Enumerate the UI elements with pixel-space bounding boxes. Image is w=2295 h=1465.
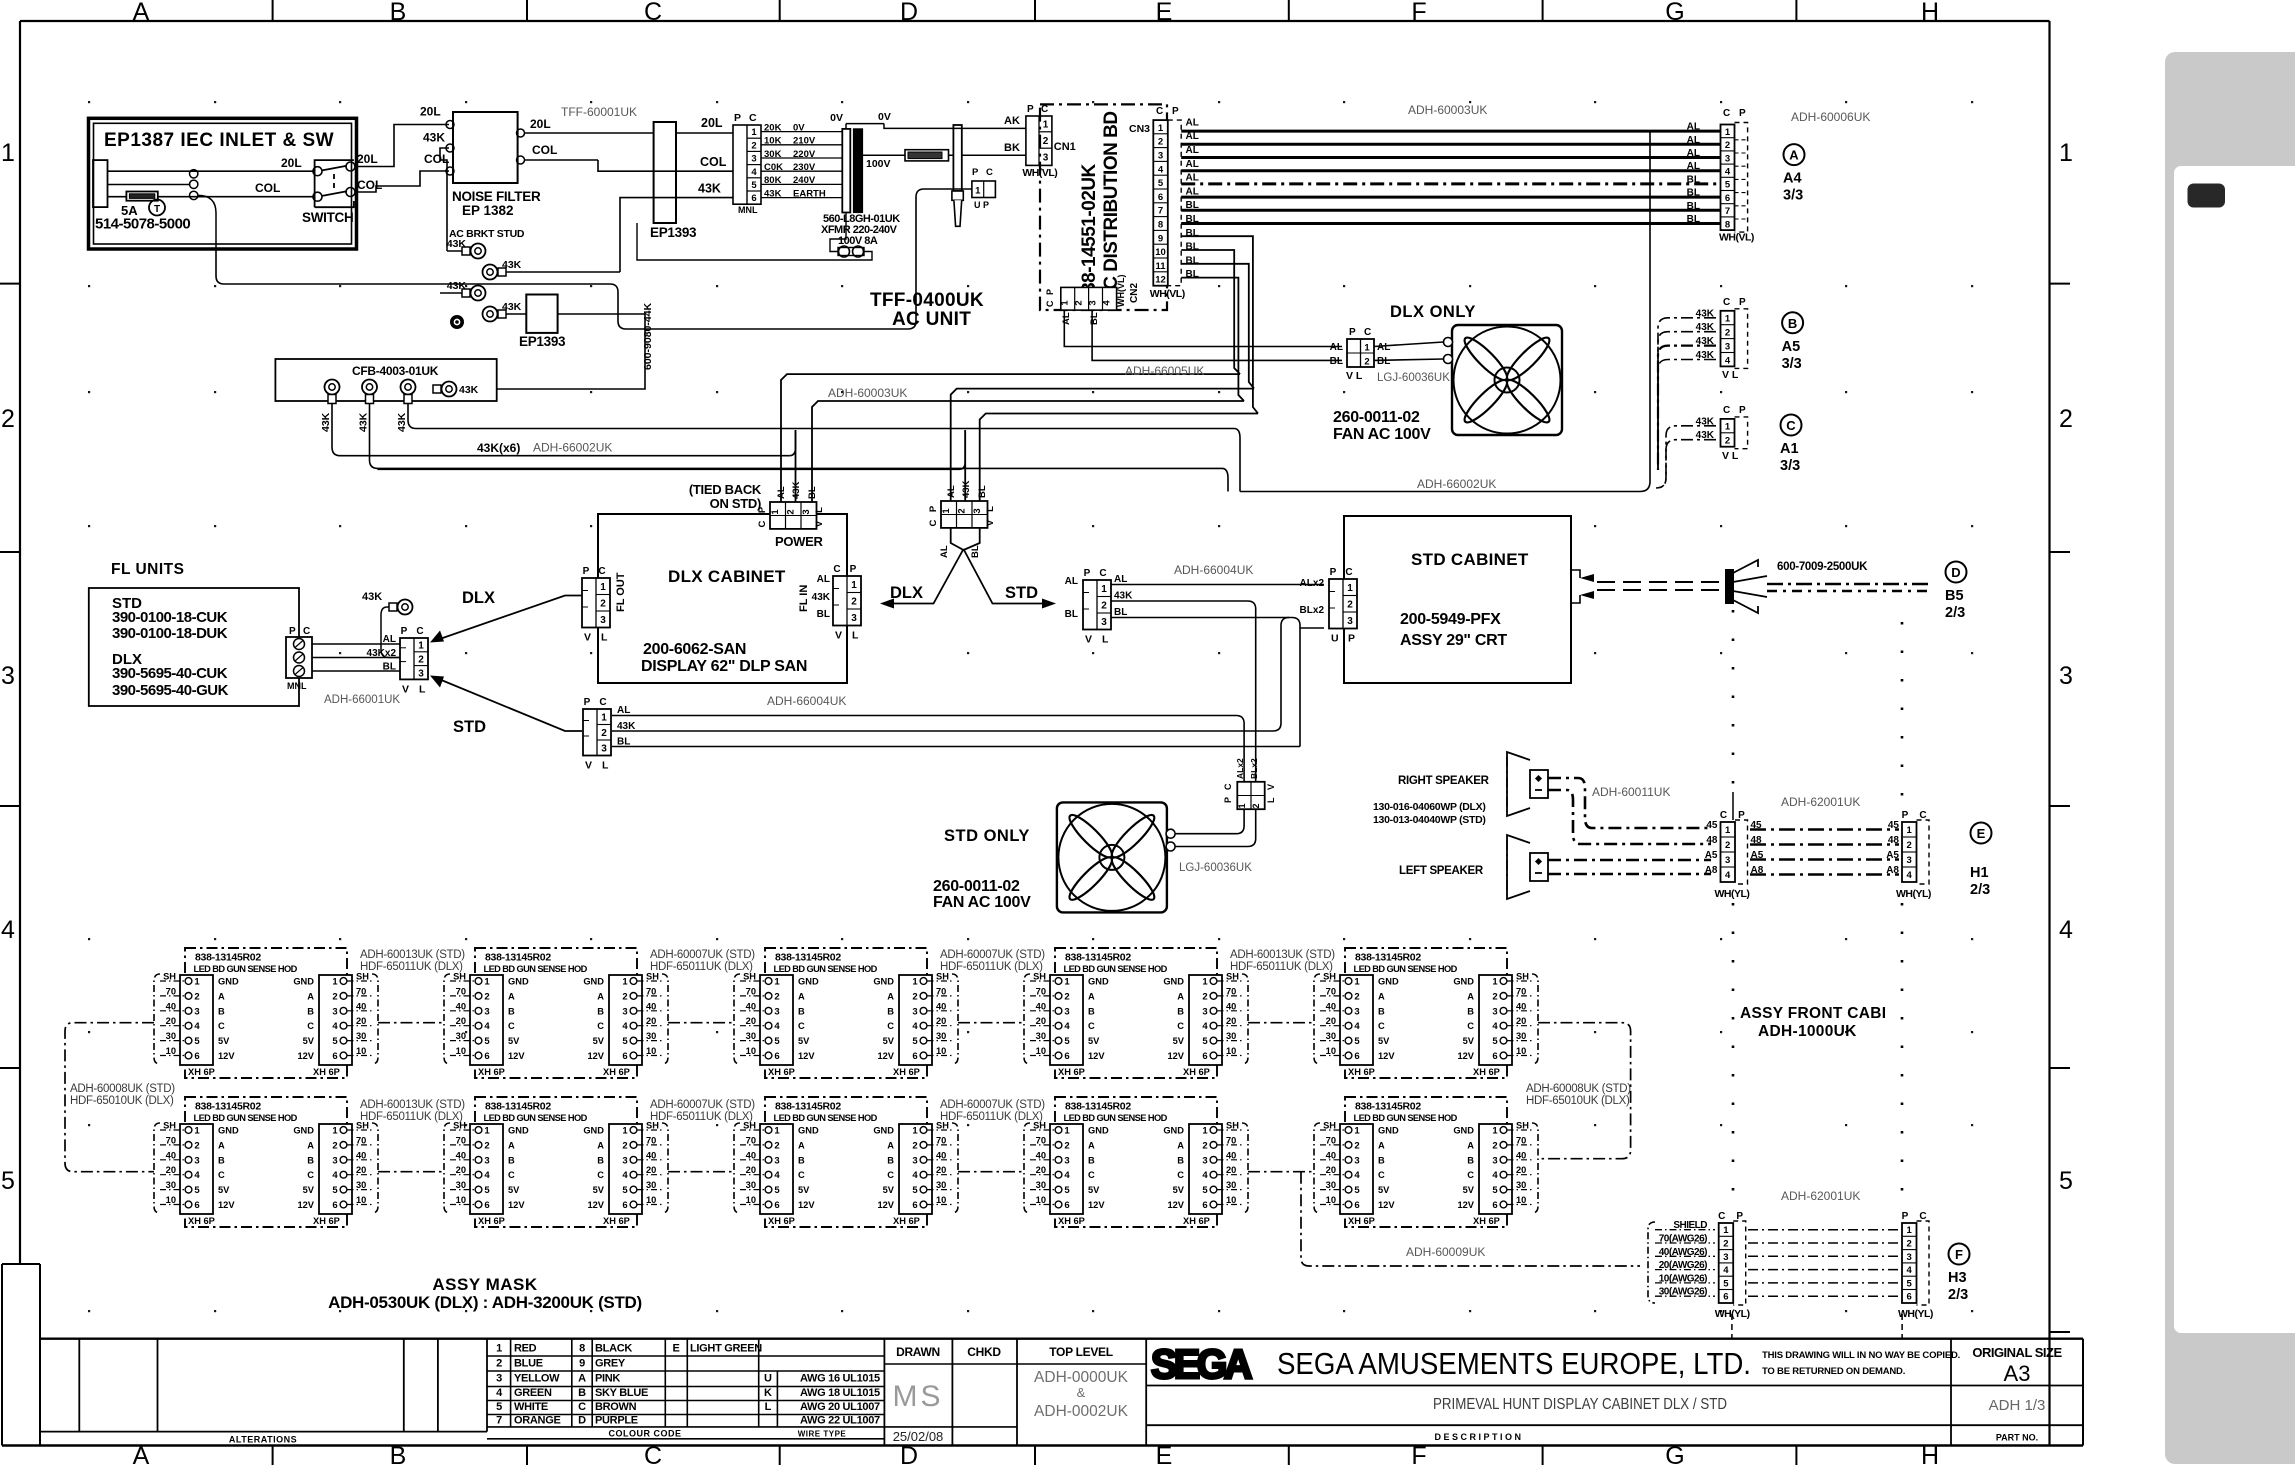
svg-text:43K: 43K [698,182,721,196]
svg-text:A5: A5 [1886,850,1899,861]
svg-text:AL: AL [817,574,830,585]
svg-text:0V: 0V [830,112,843,124]
connector CN3 12P [1129,106,1199,300]
svg-text:3: 3 [1158,151,1163,162]
scrollbar thumb [2188,184,2226,208]
svg-text:3/3: 3/3 [1783,188,1803,204]
label DLX ONLY [1390,303,1476,321]
svg-text:4: 4 [751,167,757,178]
svg-text:V L: V L [1346,370,1363,382]
svg-text:ADH-60013UK (STD): ADH-60013UK (STD) [360,949,465,961]
svg-text:ADH-60013UK (STD): ADH-60013UK (STD) [1230,949,1335,961]
svg-text:C: C [833,564,840,575]
svg-text:AL: AL [1114,574,1127,585]
CFB ring terminals [320,380,479,433]
connector POWER DLX [757,481,825,549]
svg-text:3: 3 [801,509,812,514]
label ADH-62001UK speakers [1781,795,1860,809]
harness labels row 2 [360,1099,1045,1123]
svg-text:H3: H3 [1948,1270,1967,1286]
svg-text:CFB-4003-01UK: CFB-4003-01UK [352,364,439,378]
svg-text:FAN AC 100V: FAN AC 100V [933,894,1031,911]
svg-text:BL: BL [1687,174,1700,185]
svg-text:A3: A3 [2004,1361,2031,1386]
svg-text:43K(x6): 43K(x6) [477,441,520,455]
svg-text:AK: AK [1004,115,1020,127]
svg-text:P: P [850,564,857,575]
svg-text:2: 2 [1364,357,1369,368]
svg-text:P: P [734,112,741,124]
company name text [1277,1346,1751,1381]
svg-text:43K: 43K [961,480,972,498]
svg-text:BL: BL [1330,356,1343,367]
svg-text:ADH-62001UK: ADH-62001UK [1781,1189,1860,1203]
svg-text:STD ONLY: STD ONLY [944,827,1030,845]
svg-text:C: C [578,1401,586,1413]
svg-text:1: 1 [601,713,607,724]
svg-text:V L: V L [1722,369,1739,381]
svg-text:C: C [303,626,310,637]
wire STD FL to STD cabinet [1111,585,1324,782]
reference bubble F [1948,1244,1970,1304]
svg-text:43K: 43K [423,131,445,145]
svg-text:T: T [154,204,160,215]
svg-text:H: H [1921,1442,1939,1465]
svg-text:ADH-60007UK (STD): ADH-60007UK (STD) [650,1099,755,1111]
wire switch to noise filter 20L [355,105,449,167]
svg-text:DISPLAY 62" DLP SAN: DISPLAY 62" DLP SAN [641,658,807,675]
svg-text:45: 45 [1888,820,1900,831]
svg-text:5: 5 [1,1167,15,1195]
svg-text:P: P [1084,568,1091,579]
svg-text:HDF-65011UK (DLX): HDF-65011UK (DLX) [360,1111,463,1123]
connector speakers right 4P [1886,810,1931,900]
svg-text:200-6062-SAN: 200-6062-SAN [643,641,746,658]
svg-text:F: F [1411,0,1426,26]
svg-text:L: L [852,630,859,642]
svg-text:BL: BL [1065,609,1078,620]
svg-text:E: E [1156,0,1173,26]
svg-text:WH(VL): WH(VL) [1116,275,1126,308]
svg-text:LIGHT GREEN: LIGHT GREEN [690,1343,762,1355]
svg-text:STD: STD [1005,584,1038,602]
svg-text:BL: BL [1186,269,1199,280]
reference dot grid [88,101,1973,1312]
label ADH-60011UK [1592,785,1670,799]
svg-text:2: 2 [1158,137,1163,148]
svg-text:ADH-0530UK (DLX) : ADH-3200UK: ADH-0530UK (DLX) : ADH-3200UK (STD) [328,1293,642,1312]
svg-text:2: 2 [1725,327,1730,338]
svg-text:2: 2 [1907,1239,1912,1250]
svg-text:P: P [583,566,590,577]
svg-text:3: 3 [972,508,983,513]
svg-text:CN2: CN2 [1129,283,1140,303]
svg-text:COL: COL [532,143,557,157]
label ASSY FRONT CABI [1740,1005,1886,1040]
svg-text:WHITE: WHITE [514,1401,548,1413]
svg-text:C: C [599,697,606,708]
svg-text:&: & [1077,1385,1086,1400]
svg-text:AWG 18 UL1015: AWG 18 UL1015 [800,1387,880,1399]
svg-text:WH(VL): WH(VL) [1150,288,1185,300]
svg-text:EP1387 IEC INLET & SW: EP1387 IEC INLET & SW [104,130,334,151]
svg-text:P: P [1172,106,1179,117]
svg-text:TFF-60001UK: TFF-60001UK [561,105,637,119]
svg-text:HDF-65011UK (DLX): HDF-65011UK (DLX) [650,961,753,973]
svg-text:3: 3 [1043,152,1049,163]
svg-text:7: 7 [1725,206,1730,217]
svg-text:RIGHT SPEAKER: RIGHT SPEAKER [1398,775,1490,787]
connector ADH-66001UK 3P [324,626,428,706]
svg-text:5: 5 [751,180,757,191]
svg-text:COLOUR CODE: COLOUR CODE [609,1429,682,1439]
svg-text:43K: 43K [1696,322,1715,333]
svg-text:6: 6 [751,193,756,204]
svg-text:43K: 43K [1696,416,1715,427]
svg-text:2/3: 2/3 [1948,1287,1968,1303]
svg-text:7: 7 [1158,206,1163,217]
svg-text:P: P [1739,108,1746,119]
reference bubble C [1780,415,1802,475]
svg-text:AL: AL [1065,576,1078,587]
svg-text:43K: 43K [447,238,467,250]
svg-text:3: 3 [1101,617,1107,628]
svg-text:ADH-60008UK (STD): ADH-60008UK (STD) [1526,1083,1631,1095]
svg-text:1: 1 [1725,127,1731,138]
svg-text:NOISE FILTER: NOISE FILTER [452,189,541,204]
wire bundle ADH-60003UK CN3 to A4 [1181,103,1720,225]
svg-text:C: C [928,519,939,526]
symbol gun sense board [0,0,1,1]
block AC DISTRIBUTION BD 838-14551-02UK [1040,104,1167,310]
svg-text:3/3: 3/3 [1782,356,1802,372]
svg-text:A: A [133,0,150,26]
svg-text:600-7009-2500UK: 600-7009-2500UK [1777,561,1868,573]
svg-text:43K: 43K [502,301,522,313]
svg-text:43K: 43K [396,412,408,432]
connector STD power [928,480,996,558]
gun sense boards row 2 [154,1097,1538,1227]
svg-text:43K: 43K [447,280,467,292]
svg-text:1: 1 [770,509,781,515]
wire bundle CN3 BL down to power connectors [1181,236,1258,413]
svg-text:L: L [601,632,608,644]
svg-text:ADH-60007UK (STD): ADH-60007UK (STD) [650,949,755,961]
svg-text:MNL: MNL [287,681,307,691]
svg-text:6: 6 [1907,1292,1912,1303]
svg-text:ADH-66005UK: ADH-66005UK [1125,364,1204,378]
svg-text:2: 2 [2059,405,2073,433]
fuse holder under transformer [637,213,872,261]
svg-text:43K: 43K [1696,350,1715,361]
copy notice text [1762,1350,1960,1377]
svg-text:1: 1 [1907,1225,1913,1236]
svg-text:A: A [133,1442,150,1465]
svg-text:BLUE: BLUE [514,1358,543,1370]
svg-text:2: 2 [1043,136,1049,147]
svg-text:B5: B5 [1945,588,1964,604]
svg-text:BL: BL [1687,214,1700,225]
svg-text:P: P [1902,1211,1909,1222]
block DLX CABINET 200-6062-SAN [598,514,847,683]
svg-text:BROWN: BROWN [595,1401,637,1413]
connector STD FL OUT lower [583,697,636,772]
svg-text:ADH-0000UK: ADH-0000UK [1034,1369,1129,1386]
svg-text:ADH-60013UK (STD): ADH-60013UK (STD) [360,1099,465,1111]
svg-text:C: C [1723,297,1730,308]
svg-text:GREY: GREY [595,1358,626,1370]
svg-text:AL: AL [1186,131,1199,142]
svg-text:1: 1 [1725,422,1731,433]
svg-text:4: 4 [2059,916,2073,944]
wire FL UNITS terminal to connector [312,644,400,671]
svg-text:20L: 20L [701,116,723,130]
svg-text:V: V [835,630,842,642]
block EP1387 IEC INLET & SW [89,118,357,249]
wire bundle to DLX POWER connector [781,374,1258,502]
svg-text:ORANGE: ORANGE [514,1415,560,1427]
svg-text:4: 4 [1725,355,1731,366]
svg-text:EP1393: EP1393 [650,225,697,240]
svg-text:ADH 1/3: ADH 1/3 [1989,1397,2046,1414]
fan DLX 260-0011-02 [1333,325,1562,443]
connector LGJ-60036UK 2P [1330,327,1451,384]
original size box text [1972,1345,2062,1443]
svg-text:ADH-66002UK: ADH-66002UK [1417,477,1496,491]
svg-text:ADH-66004UK: ADH-66004UK [767,694,846,708]
svg-text:8: 8 [1725,219,1730,230]
svg-text:4: 4 [1725,167,1731,178]
svg-text:1: 1 [1060,300,1071,306]
svg-text:U: U [1331,633,1339,645]
svg-text:43K: 43K [362,591,382,603]
svg-text:A8: A8 [1705,865,1718,876]
svg-text:3: 3 [496,1373,502,1385]
connector B 4P [1721,297,1748,381]
svg-text:1: 1 [1723,1225,1729,1236]
label 130-016 speaker part numbers [1373,801,1486,826]
svg-text:P: P [1349,327,1356,338]
svg-text:HDF-65010UK (DLX): HDF-65010UK (DLX) [70,1095,174,1107]
AC plug element [952,125,963,226]
svg-text:D: D [900,1442,918,1465]
svg-text:WH(YL): WH(YL) [1898,1308,1933,1320]
svg-text:H: H [1921,0,1939,26]
svg-text:A8: A8 [1886,865,1899,876]
svg-text:H1: H1 [1970,865,1989,881]
svg-text:V: V [1266,784,1276,790]
reference bubble A [1783,144,1805,204]
svg-text:L: L [814,507,825,513]
svg-text:5: 5 [496,1401,502,1413]
svg-text:ADH-60009UK: ADH-60009UK [1406,1245,1485,1259]
svg-text:PURPLE: PURPLE [595,1415,638,1427]
svg-text:C: C [757,520,768,527]
svg-text:2: 2 [1725,140,1730,151]
wire F connectors link [1748,1230,1899,1297]
svg-text:43K: 43K [1696,336,1715,347]
wire EP1393 to MNL connector [598,116,733,272]
SEGA logo [1151,1341,1252,1387]
terminal MNL 3P [286,626,312,691]
svg-text:DLX CABINET: DLX CABINET [668,567,786,586]
reference bubble B [1782,312,1804,372]
svg-text:9: 9 [579,1358,585,1370]
svg-text:DLX: DLX [462,589,495,607]
svg-text:F: F [1955,1247,1963,1262]
svg-text:CN3: CN3 [1129,123,1150,135]
label ADH-60008UK left [70,1083,175,1107]
wire bundle ADH-66004UK lower [612,618,1300,782]
svg-text:4: 4 [1101,300,1112,306]
svg-text:2: 2 [786,509,797,514]
svg-text:C: C [1718,1211,1725,1222]
wire DLX diagonal [430,589,582,643]
svg-text:260-0011-02: 260-0011-02 [1333,409,1420,426]
svg-text:3: 3 [601,744,607,755]
svg-text:BL: BL [1687,201,1700,212]
svg-text:EP1393: EP1393 [519,334,566,349]
wire gun board chain row 2 [378,1171,1314,1173]
svg-text:ALTERATIONS: ALTERATIONS [229,1435,297,1445]
svg-text:1: 1 [751,127,757,138]
svg-text:2: 2 [957,508,968,513]
svg-text:4: 4 [1907,1265,1913,1276]
svg-text:100V 8A: 100V 8A [838,235,878,247]
title block grid [40,1339,2083,1446]
svg-text:E: E [1977,826,1986,841]
svg-text:3: 3 [1725,341,1730,352]
svg-text:2: 2 [1251,803,1261,808]
svg-text:20L: 20L [281,156,302,170]
svg-text:3: 3 [418,668,424,679]
connector STD cabinet power [1300,567,1357,645]
svg-text:A: A [1789,148,1799,163]
wire right speaker to connector [1548,778,1711,844]
svg-text:43K: 43K [1114,591,1133,602]
svg-text:COL: COL [700,155,727,169]
svg-text:3/3: 3/3 [1780,458,1800,474]
svg-text:2: 2 [1074,300,1085,305]
svg-text:SKY BLUE: SKY BLUE [595,1387,648,1399]
reference bubble D [1945,562,1967,622]
svg-text:U: U [764,1373,772,1385]
svg-text:U P: U P [974,200,989,210]
wire inlet to switch [108,156,315,249]
svg-text:ON STD): ON STD) [710,496,761,511]
svg-text:WIRE TYPE: WIRE TYPE [798,1429,847,1438]
svg-text:C: C [1045,300,1055,307]
svg-text:AL: AL [1061,312,1072,325]
svg-text:C: C [1364,327,1371,338]
svg-text:P: P [1739,297,1746,308]
svg-text:C: C [986,167,993,178]
connector CN1 3P [1022,104,1075,179]
svg-text:3: 3 [2059,662,2073,690]
wire inlet COL to stud [216,189,972,329]
svg-text:2: 2 [1101,601,1107,612]
svg-text:390-5695-40-CUK: 390-5695-40-CUK [112,665,228,682]
svg-text:10: 10 [1155,247,1166,258]
svg-text:P: P [1348,633,1355,645]
label STD ONLY [944,827,1030,845]
DLX STD selector arrows [880,528,1056,609]
svg-text:1: 1 [975,186,981,197]
svg-text:ADH-66001UK: ADH-66001UK [324,694,400,706]
svg-text:2: 2 [1725,436,1730,447]
svg-text:2: 2 [1,405,15,433]
svg-text:D: D [900,0,918,26]
svg-text:4: 4 [1,916,15,944]
svg-text:AWG 22 UL1007: AWG 22 UL1007 [800,1415,880,1427]
svg-text:2: 2 [1907,840,1912,851]
svg-text:2: 2 [851,597,857,608]
svg-text:A1: A1 [1780,441,1799,457]
svg-text:DLX ONLY: DLX ONLY [1390,303,1476,321]
block NOISE FILTER EP 1382 [446,112,541,218]
svg-text:V: V [584,632,591,644]
svg-text:EP 1382: EP 1382 [462,203,514,218]
label AC BRKT STUD [449,228,525,240]
svg-text:AL: AL [1186,117,1199,128]
switch SW [302,160,355,225]
svg-text:ADH-60011UK: ADH-60011UK [1592,785,1670,799]
svg-text:V: V [585,760,592,772]
scrollbar track [2165,52,2295,1464]
svg-text:C: C [1720,810,1727,821]
svg-text:1: 1 [1364,343,1370,354]
svg-text:BL: BL [1377,356,1390,367]
harness labels row 1 [360,949,1335,973]
svg-text:390-5695-40-GUK: 390-5695-40-GUK [112,682,229,699]
svg-text:AC DISTRIBUTION BD: AC DISTRIBUTION BD [1101,111,1122,303]
stud terminals 43K [440,238,620,329]
svg-text:3: 3 [851,613,857,624]
svg-text:4: 4 [1158,164,1164,175]
svg-text:4: 4 [1907,870,1913,881]
svg-text:BL: BL [1186,255,1199,266]
svg-text:STD: STD [453,718,486,736]
svg-text:C: C [749,112,757,124]
wire STD diagonal [430,676,582,737]
svg-text:B: B [578,1387,586,1399]
svg-text:LGJ-60036UK: LGJ-60036UK [1179,862,1252,874]
svg-text:THIS DRAWING WILL IN NO WAY BE: THIS DRAWING WILL IN NO WAY BE COPIED. [1762,1350,1960,1361]
svg-text:LGJ-60036UK: LGJ-60036UK [1377,372,1450,384]
svg-text:(TIED BACK: (TIED BACK [689,482,762,497]
svg-text:1: 1 [418,641,424,652]
svg-text:2: 2 [1347,600,1353,611]
block FL UNITS [89,588,299,706]
svg-text:C: C [1345,567,1352,578]
svg-text:C: C [644,0,662,26]
svg-text:1: 1 [1043,120,1049,131]
svg-text:3: 3 [1907,855,1912,866]
svg-text:4: 4 [1725,870,1731,881]
svg-text:V: V [985,519,996,526]
transformer 560-L8GH-01UK [821,111,900,247]
wire ADH-60009UK [1301,1172,1640,1266]
svg-text:20L: 20L [357,152,378,166]
svg-text:DLX: DLX [890,584,923,602]
svg-text:200-5949-PFX: 200-5949-PFX [1400,611,1501,628]
svg-text:11: 11 [1155,261,1166,272]
svg-text:BLx2: BLx2 [1249,758,1259,779]
svg-text:43K: 43K [1696,430,1715,441]
connector STD fan 2P [1223,758,1276,809]
svg-text:BLx2: BLx2 [1300,605,1325,616]
svg-text:20L: 20L [420,105,441,119]
